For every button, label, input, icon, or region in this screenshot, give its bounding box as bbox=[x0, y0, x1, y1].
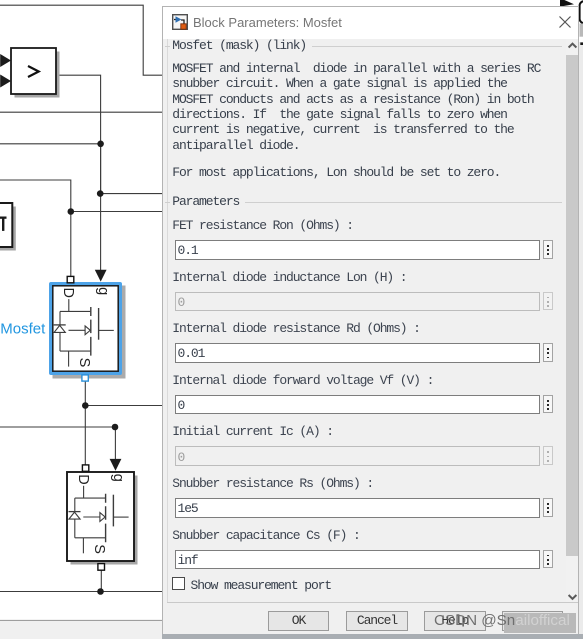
svg-text:Mosfet: Mosfet bbox=[0, 321, 46, 338]
